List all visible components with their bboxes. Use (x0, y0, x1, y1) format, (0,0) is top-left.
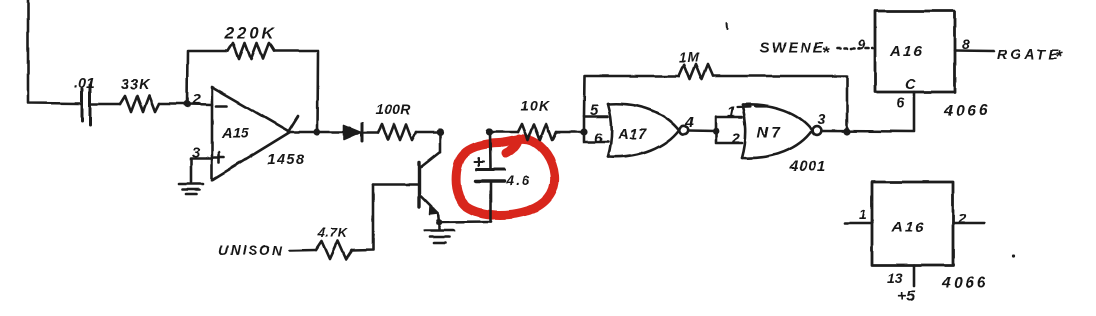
resistor 1M (679, 65, 713, 80)
svg-text:A15: A15 (221, 126, 250, 142)
svg-text:SWENE: SWENE (760, 41, 825, 57)
svg-text:UNISON: UNISON (218, 242, 284, 258)
op-amp plus symbol (214, 152, 224, 162)
svg-text:2: 2 (731, 130, 741, 147)
wire 100R to node (416, 131, 440, 134)
resistor 4.7K (316, 241, 352, 259)
stray overdraw dashes above N7 (737, 107, 768, 108)
capacitor 4.6 (polarized) (475, 158, 504, 181)
wire emitter node to capacitor bottom (439, 220, 491, 223)
svg-text:4001: 4001 (789, 158, 827, 175)
svg-text:1M: 1M (679, 50, 700, 65)
wire feedback riser to 1M (584, 76, 679, 116)
resistor 100R (378, 124, 416, 140)
wire 220K to output leg (274, 51, 318, 132)
svg-text:1: 1 (727, 104, 735, 121)
svg-text:A17: A17 (617, 126, 647, 143)
svg-text:1: 1 (859, 206, 867, 222)
svg-text:5: 5 (590, 102, 599, 119)
wire 33K to node (159, 103, 187, 106)
node: capacitor top junction (486, 128, 493, 135)
wire emitter to node and ground stub (438, 213, 439, 229)
svg-text:*: * (822, 43, 830, 62)
wire A17 input tie bar and stubs (584, 116, 608, 142)
svg-text:2: 2 (191, 91, 201, 108)
node: collector junction (436, 128, 443, 135)
svg-text:10K: 10K (521, 98, 550, 114)
svg-text:33K: 33K (121, 77, 151, 93)
wire capacitor bottom leg (489, 181, 492, 222)
ground (op-amp pin 3) (179, 184, 203, 194)
svg-text:4.7K: 4.7K (317, 225, 349, 240)
wire SWENE* to pin 9 (837, 47, 874, 50)
wire 10K to gate input node (556, 131, 584, 134)
wire N7 input tie bar and stubs (716, 117, 742, 144)
wire node to op-amp pin 2 (187, 103, 212, 106)
svg-text:100R: 100R (376, 101, 411, 117)
wire diode to 100R (362, 131, 378, 134)
op-amp pin 3 wire to ground (191, 158, 212, 182)
transistor base wire (373, 183, 417, 186)
op-amp minus symbol (216, 105, 227, 108)
wire pin 2 (bottom A16) (953, 222, 984, 225)
svg-text:RGATE: RGATE (997, 46, 1061, 62)
svg-text:4: 4 (684, 114, 694, 131)
svg-text:N7: N7 (757, 125, 783, 142)
wire pin 13 to +5 (913, 265, 916, 286)
node: N7 input junction (713, 128, 720, 135)
svg-text:6: 6 (594, 130, 603, 147)
resistor 33K (120, 96, 159, 112)
op-amp pin 1 slash (288, 116, 298, 132)
resistor 10K (518, 124, 556, 140)
NOR gate A17 (608, 104, 688, 157)
A16 switch box (bottom) (872, 182, 953, 265)
svg-text:.01: .01 (74, 76, 94, 92)
transistor Q1 (419, 163, 438, 214)
node: A17 input junction (580, 128, 587, 135)
capacitor .01 (82, 85, 90, 125)
wire A17 output to N7 input (688, 129, 716, 132)
diode CR1 (344, 123, 362, 141)
node: output/feedback junction (314, 128, 321, 135)
wire op-amp output (290, 131, 345, 134)
svg-text:220K: 220K (224, 25, 276, 43)
svg-text:8: 8 (962, 36, 970, 52)
stray dot (1011, 254, 1014, 257)
NOR gate N7 (742, 105, 821, 158)
wire cap to 33K (90, 103, 120, 106)
wire N7 output to A16 pin C (821, 92, 914, 132)
svg-text:3: 3 (192, 144, 200, 160)
svg-text:4066: 4066 (943, 103, 990, 120)
node: feedback junction after N7 (843, 128, 850, 135)
svg-text:1458: 1458 (267, 152, 306, 168)
wire: input from top-left (28, 0, 80, 104)
svg-text:*: * (1055, 47, 1063, 66)
wire node to 10K (490, 131, 518, 134)
wire: feedback up and over (187, 51, 228, 104)
wire 1M to output node (713, 76, 847, 132)
svg-text:+5: +5 (898, 288, 916, 305)
svg-text:A16: A16 (891, 219, 926, 236)
wire pin 8 to RGATE* (955, 49, 994, 52)
svg-text:4.6: 4.6 (505, 173, 531, 188)
svg-text:C: C (905, 77, 916, 93)
svg-text:4066: 4066 (941, 275, 988, 292)
resistor 220K (228, 43, 274, 59)
wire pin 1 (bottom A16) (845, 222, 872, 225)
wire node down to transistor collector (421, 132, 440, 167)
svg-text:3: 3 (817, 111, 826, 128)
svg-text:2: 2 (957, 210, 966, 226)
stray tick mark (726, 23, 729, 29)
ground (emitter) (425, 231, 454, 244)
svg-text:A16: A16 (889, 43, 924, 60)
red marker circle annotation (456, 139, 555, 215)
wire UNISON to 4.7K (290, 249, 316, 252)
wire node down to capacitor 4.6 (489, 132, 492, 168)
svg-text:9: 9 (857, 36, 865, 52)
node: op-amp inverting input junction (183, 101, 190, 108)
A16 switch box (top) (875, 11, 955, 92)
op-amp U A15 triangle (212, 87, 290, 180)
node: emitter junction (436, 219, 443, 226)
svg-text:6: 6 (896, 94, 904, 110)
wire base network vertical (352, 184, 373, 250)
svg-text:13: 13 (887, 270, 903, 286)
